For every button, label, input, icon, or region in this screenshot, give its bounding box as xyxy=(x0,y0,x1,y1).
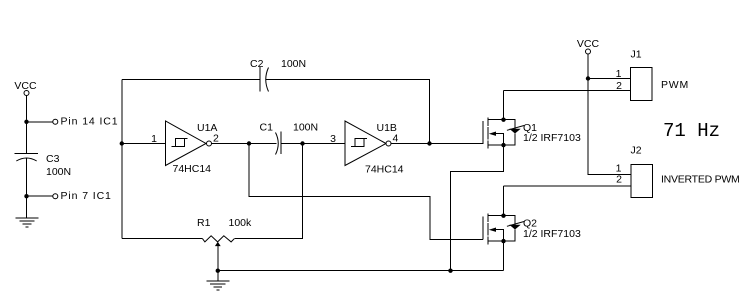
transistor Q2 channel xyxy=(487,214,489,245)
node Q1 source ground junction xyxy=(448,269,452,273)
svg-text:1/2 IRF7103: 1/2 IRF7103 xyxy=(523,132,581,144)
wire Q1 source to ground xyxy=(451,145,504,271)
svg-text:Pin 7 IC1: Pin 7 IC1 xyxy=(61,190,112,202)
svg-text:1: 1 xyxy=(616,68,622,80)
svg-text:100k: 100k xyxy=(229,217,253,229)
svg-text:2: 2 xyxy=(616,174,622,186)
svg-text:J2: J2 xyxy=(631,144,642,156)
wire C1 right xyxy=(281,143,303,145)
resistor R1 zigzag xyxy=(203,236,235,242)
svg-text:R1: R1 xyxy=(197,217,211,229)
wire U1A output to Q2 gate branch xyxy=(249,144,483,240)
Q2 drain stub xyxy=(488,186,504,216)
Q2 body diode triangle xyxy=(509,225,520,230)
Q2 source arrow xyxy=(489,228,496,232)
svg-text:J1: J1 xyxy=(631,49,642,61)
wire left rail x120 xyxy=(121,80,123,239)
svg-text:VCC: VCC xyxy=(14,80,37,92)
svg-text:74HC14: 74HC14 xyxy=(365,164,404,176)
svg-text:INVERTED PWM: INVERTED PWM xyxy=(661,174,739,186)
wire C1 left xyxy=(249,143,277,145)
capacitor C3 top plate xyxy=(15,153,38,155)
ground left xyxy=(16,218,39,227)
Q1 body diode triangle xyxy=(509,129,520,134)
node C1 right junction xyxy=(300,141,304,145)
svg-text:100N: 100N xyxy=(46,166,71,178)
svg-text:2: 2 xyxy=(213,133,219,145)
node Pin14 junction xyxy=(24,120,28,124)
wire top feedback left segment xyxy=(122,79,260,81)
connector J2 xyxy=(631,164,653,197)
Q1 body diode branch xyxy=(504,120,516,145)
node C1 left junction xyxy=(247,141,251,145)
node Q1 source xyxy=(501,143,505,147)
VCC terminal right xyxy=(586,49,591,54)
svg-text:100N: 100N xyxy=(293,122,318,134)
capacitor C1 straight plate xyxy=(280,132,282,155)
connector J1 xyxy=(631,68,653,101)
node Q2 drain xyxy=(501,214,505,218)
node Q1 drain xyxy=(501,118,505,122)
U1A schmitt glyph xyxy=(172,139,188,147)
Q2 mid stub xyxy=(496,230,504,241)
wire R1 wiper to ground xyxy=(217,245,219,281)
wire J2 pin2 from Q2 drain xyxy=(504,185,632,187)
svg-text:74HC14: 74HC14 xyxy=(173,163,212,175)
wire U1B output xyxy=(391,143,483,145)
node Q2 source xyxy=(501,239,505,243)
Q2 body diode bar xyxy=(507,222,524,227)
wire U1B input to R1 branch xyxy=(234,144,302,239)
transistor Q1 gate bar xyxy=(482,121,484,144)
node U1B output junction xyxy=(427,141,431,145)
wire R1 left lead xyxy=(122,238,203,240)
Q1 drain stub xyxy=(488,91,504,120)
wire J1 pin2 from Q1 drain xyxy=(504,90,631,92)
wire U1A input xyxy=(122,143,166,145)
svg-text:C3: C3 xyxy=(46,153,60,165)
wire VCC left rail vertical xyxy=(26,96,28,219)
node wiper ground junction xyxy=(216,269,220,273)
wire U1A output xyxy=(212,143,250,145)
pin terminal Pin 7 IC1 xyxy=(53,194,58,199)
wire to Pin 7 terminal xyxy=(27,195,53,197)
svg-text:1: 1 xyxy=(151,133,157,145)
svg-text:C2: C2 xyxy=(250,58,264,70)
ground center xyxy=(206,281,229,290)
op-amp U1A triangle xyxy=(166,121,207,166)
U1B output bubble xyxy=(386,141,391,146)
svg-text:PWM: PWM xyxy=(661,79,689,91)
svg-text:4: 4 xyxy=(393,133,399,145)
svg-text:Pin 14 IC1: Pin 14 IC1 xyxy=(61,116,119,128)
op-amp U1B triangle xyxy=(345,121,386,166)
svg-text:71 Hz: 71 Hz xyxy=(663,120,720,142)
svg-text:100N: 100N xyxy=(281,58,306,70)
wire to Pin 14 terminal xyxy=(27,121,53,123)
U1A output bubble xyxy=(207,141,212,146)
wire ground rail xyxy=(218,270,504,272)
wire J1 pin1 xyxy=(588,78,631,80)
node Pin7 junction xyxy=(24,194,28,198)
Q1 source arrow xyxy=(489,132,496,136)
svg-text:3: 3 xyxy=(330,133,336,145)
node U1A input junction xyxy=(120,141,124,145)
svg-text:C1: C1 xyxy=(260,122,274,134)
capacitor C2 curved plate xyxy=(266,68,269,92)
Q2 body diode branch xyxy=(504,216,516,241)
wire VCC right rail xyxy=(588,54,631,175)
VCC terminal left xyxy=(24,91,29,96)
capacitor C3 curved plate xyxy=(16,158,36,161)
U1B schmitt glyph xyxy=(351,139,367,147)
svg-text:1/2 IRF7103: 1/2 IRF7103 xyxy=(523,228,581,240)
wire top feedback right segment xyxy=(265,80,429,144)
capacitor C2 straight plate xyxy=(259,67,261,92)
svg-text:VCC: VCC xyxy=(577,38,600,50)
transistor Q2 gate bar xyxy=(482,217,484,240)
node VCC J1 junction xyxy=(586,76,590,80)
wire U1B input xyxy=(303,143,346,145)
svg-text:2: 2 xyxy=(616,80,622,92)
Q2 source stub xyxy=(488,240,504,242)
pin terminal Pin 14 IC1 xyxy=(53,119,58,124)
R1 wiper arrow xyxy=(215,242,221,246)
wire Q2 source to ground xyxy=(503,241,505,271)
capacitor C1 curved plate xyxy=(276,133,279,155)
Q1 mid stub xyxy=(496,134,504,145)
Q1 body diode bar xyxy=(507,126,524,131)
transistor Q1 channel xyxy=(487,118,489,149)
Q1 source stub xyxy=(488,144,504,146)
